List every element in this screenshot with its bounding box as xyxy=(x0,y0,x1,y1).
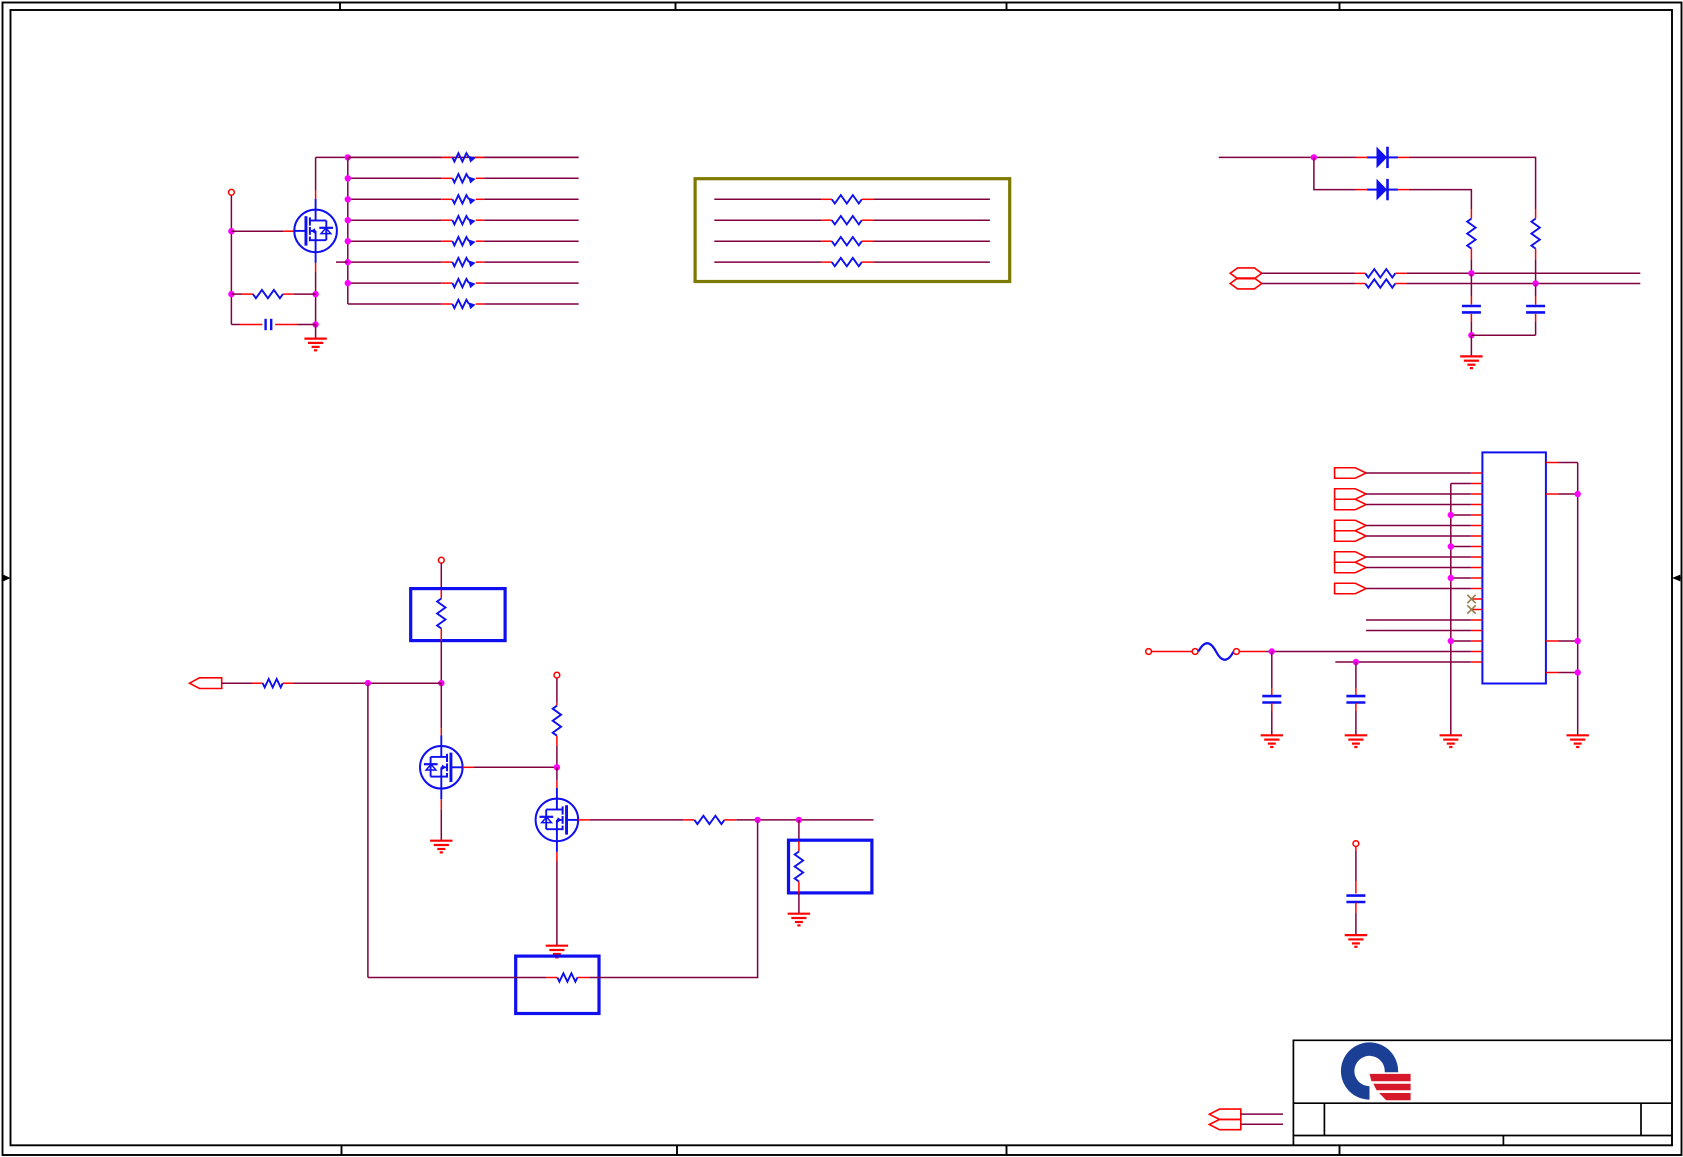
pin M1 gate xyxy=(283,230,294,232)
pin U1 left 3 xyxy=(1471,493,1483,495)
node row1 xyxy=(345,154,351,160)
node row5 xyxy=(345,238,351,244)
ground box2 xyxy=(788,914,810,926)
wire stub pin16 xyxy=(1366,630,1471,632)
IC U1 body xyxy=(1482,452,1546,683)
ground cap1 xyxy=(1261,735,1283,747)
pin D1 anode xyxy=(1356,156,1367,158)
ground bus xyxy=(1440,735,1462,747)
wire M1 drain up xyxy=(315,157,317,190)
wire node to Q1 drain xyxy=(440,683,442,728)
resistor inside box2 xyxy=(795,841,803,894)
port E arrow xyxy=(1335,531,1367,542)
resistor pullup 2 xyxy=(1531,209,1539,259)
node right rail 672.5 xyxy=(1575,669,1581,675)
node bus pin17 xyxy=(1448,638,1454,644)
wire net4 right xyxy=(873,261,990,263)
resistor row6 xyxy=(441,258,484,267)
pin circle fuse b xyxy=(1234,649,1240,655)
wire feedback bottom right xyxy=(590,820,758,978)
pin circle P1 xyxy=(229,189,235,195)
port B arrow xyxy=(1335,489,1367,500)
company logo red stripe 3 xyxy=(1379,1093,1411,1100)
port H arrow xyxy=(1335,583,1367,594)
wire net1 left xyxy=(714,198,821,200)
wire diode2 branch xyxy=(1314,157,1356,189)
wire port E xyxy=(1366,535,1471,537)
wire row8 xyxy=(348,303,442,305)
wire pair lower left xyxy=(1262,283,1355,285)
left margin center arrow xyxy=(3,575,11,582)
pin U1 left 8 xyxy=(1471,546,1483,548)
pin U1 right 2 xyxy=(1546,493,1559,495)
zone tick top 1 xyxy=(339,3,341,11)
wire row3 xyxy=(348,198,442,200)
pin U1 left 4 xyxy=(1471,504,1483,506)
port G arrow xyxy=(1335,562,1367,573)
resistor row3 xyxy=(441,195,484,204)
wire Q1 gate xyxy=(474,766,557,768)
wire gate net right xyxy=(736,819,873,821)
resistor-pack box 2 (blue) xyxy=(789,840,872,893)
wire supply2 down xyxy=(556,678,558,703)
wire top net xyxy=(1219,156,1356,158)
pin D1 cathode xyxy=(1398,156,1409,158)
ground aux cap xyxy=(1345,935,1367,947)
pin U1 left 17 xyxy=(1471,640,1483,642)
resistor pullup 1 xyxy=(1467,209,1475,259)
wire pullup to node xyxy=(556,746,558,768)
resistor net2 xyxy=(821,216,873,224)
wire net2 left xyxy=(714,219,821,221)
port arrow left xyxy=(190,678,222,689)
node lower-cap2 xyxy=(1532,280,1538,286)
port double arrow lower xyxy=(1209,1109,1241,1130)
node upper-cap1 xyxy=(1468,270,1474,276)
title block divider rev cell xyxy=(1640,1103,1642,1135)
wire bus tap pin8 xyxy=(1451,546,1471,548)
node source-cap xyxy=(312,321,318,327)
pin circle fuse in xyxy=(1146,649,1152,655)
title block outline xyxy=(1293,1040,1672,1145)
diode D2 xyxy=(1367,179,1398,201)
wire to ground xyxy=(1470,335,1472,356)
wire net4 left xyxy=(714,261,821,263)
wire row8 right xyxy=(484,303,578,305)
wire lower port 2 xyxy=(1241,1123,1283,1125)
zone tick top 2 xyxy=(675,3,677,11)
pin circle supply 2 xyxy=(554,672,560,678)
wire U1 right 1 xyxy=(1559,462,1578,464)
zone tick top 3 xyxy=(1006,3,1008,11)
pin U1 left 5 xyxy=(1471,514,1483,516)
title block line under title row xyxy=(1293,1135,1672,1137)
node row7 xyxy=(345,280,351,286)
wire Q2 source down xyxy=(556,861,558,945)
wire supply1 down xyxy=(440,563,442,590)
wire to ground xyxy=(315,325,317,339)
node cap commons xyxy=(1468,332,1474,338)
pin U1 left 18 xyxy=(1471,651,1483,653)
wire port B xyxy=(1366,493,1471,495)
mosfet M1 xyxy=(294,199,337,263)
capacitor bypass 1 xyxy=(1262,652,1281,735)
wire feedback bottom left xyxy=(368,977,546,979)
resistor inside box3 xyxy=(546,973,589,981)
pin U1 right 3 xyxy=(1546,640,1559,642)
capacitor filter 2 xyxy=(1526,284,1545,336)
wire D2 cathode xyxy=(1409,190,1472,209)
wire port H xyxy=(1366,588,1471,590)
pin U1 left 7 xyxy=(1471,535,1483,537)
wire port A xyxy=(1366,472,1471,474)
title block line under logo row xyxy=(1293,1102,1672,1104)
node bus pin5 xyxy=(1448,512,1454,518)
resistor R gate-source xyxy=(242,290,316,298)
node row6 xyxy=(345,259,351,265)
node right rail 641.0 xyxy=(1575,638,1581,644)
pin U1 left 11 xyxy=(1471,577,1483,579)
resistor row5 xyxy=(441,237,484,246)
wire D1 cathode xyxy=(1409,157,1536,209)
ground Q1 xyxy=(430,841,452,853)
pin U1 left 15 xyxy=(1471,619,1483,621)
wire row7 xyxy=(348,282,442,284)
resistor pullup gate xyxy=(553,703,561,746)
wire row4 right xyxy=(484,219,578,221)
capacitor aux xyxy=(1346,847,1365,935)
pin M1 drain xyxy=(315,190,317,199)
wire gate xyxy=(231,230,283,232)
pin U1 left 2 xyxy=(1471,483,1483,485)
pin circle fuse a xyxy=(1192,649,1198,655)
node cap2 tap xyxy=(1353,659,1359,665)
pin U1 left 1 xyxy=(1471,472,1483,474)
port D arrow xyxy=(1335,520,1367,531)
wire cap2 bottom xyxy=(1471,334,1535,336)
wire input to node xyxy=(293,682,441,684)
ground Q2 xyxy=(546,946,568,958)
wire M1 source down xyxy=(315,272,317,325)
wire pulldown down xyxy=(798,820,800,841)
node Q1gate-Q2drain xyxy=(554,764,560,770)
port F arrow xyxy=(1335,552,1367,563)
no-connect X pin14 xyxy=(1467,605,1475,613)
resistor row8 xyxy=(441,300,484,309)
resistor series input xyxy=(252,679,293,687)
wire port right xyxy=(222,682,252,684)
wire box2 to ground xyxy=(798,894,800,914)
wire lower port 1 xyxy=(1241,1113,1283,1115)
pin fuse wire in xyxy=(1152,651,1193,653)
resistor row4 xyxy=(441,216,484,225)
zone tick top 4 xyxy=(1339,3,1341,11)
wire net1 right xyxy=(873,198,990,200)
wire box1 down xyxy=(440,641,442,683)
pin U1 right 4 xyxy=(1546,672,1559,674)
resistor net1 xyxy=(821,195,873,203)
resistor Q2 gate series xyxy=(684,816,737,824)
node resistor left xyxy=(228,291,234,297)
diode D1 xyxy=(1367,147,1398,169)
wire row2 right xyxy=(484,177,578,179)
pin U1 right 1 xyxy=(1546,462,1559,464)
wire net3 left xyxy=(714,240,821,242)
ground cap2 xyxy=(1345,735,1367,747)
pin M1 source xyxy=(315,263,317,272)
pin D2 anode xyxy=(1356,189,1367,191)
wire row1 bus xyxy=(316,156,579,158)
node feedback branch xyxy=(365,680,371,686)
wire cap2 net xyxy=(1335,661,1471,663)
resistor row1 xyxy=(441,153,484,162)
zone tick bottom 3 xyxy=(1006,1145,1008,1155)
wire pair upper left xyxy=(1262,272,1355,274)
port A arrow xyxy=(1335,468,1367,479)
pin U1 left 6 xyxy=(1471,525,1483,527)
resistor-pack box (olive) xyxy=(695,179,1010,282)
wire node to Q2 drain xyxy=(556,767,558,781)
title block divider size cell xyxy=(1323,1103,1325,1135)
fuse F1 xyxy=(1198,643,1233,660)
wire U1 right 4 xyxy=(1559,672,1578,674)
pin Q1 gate xyxy=(463,766,474,768)
node row2 xyxy=(345,175,351,181)
wire bus tap pin11 xyxy=(1451,577,1471,579)
wire row5 right xyxy=(484,240,578,242)
wire gnd bus top xyxy=(1451,483,1471,485)
pin Q1 source xyxy=(440,799,442,809)
wire P1 down xyxy=(230,195,232,324)
wire row6 xyxy=(348,261,442,263)
pin U1 left 12 xyxy=(1471,588,1483,590)
ground M1 source xyxy=(304,339,326,351)
wire U1 right 3 xyxy=(1559,640,1578,642)
wire row6 stub xyxy=(336,261,348,263)
resistor series lower xyxy=(1355,279,1407,287)
wire bus tap pin5 xyxy=(1451,514,1471,516)
right margin center arrow xyxy=(1672,575,1682,582)
wire vertical bus xyxy=(347,157,349,304)
node diode branch xyxy=(1311,154,1317,160)
node gate-pulldown xyxy=(796,817,802,823)
wire resistor row left xyxy=(231,293,242,295)
wire Q2 gate xyxy=(590,819,684,821)
zone tick bottom 1 xyxy=(341,1145,343,1155)
resistor net4 xyxy=(821,258,873,266)
pin Q2 drain xyxy=(556,781,558,788)
wire port C xyxy=(1366,504,1471,506)
resistor inside box1 xyxy=(437,590,445,641)
node fuse-cap1 xyxy=(1269,648,1275,654)
resistor-pack box 3 (blue) xyxy=(516,956,599,1013)
node right rail 494.0 xyxy=(1575,491,1581,497)
pin Q2 source xyxy=(556,852,558,861)
title block divider date cell xyxy=(1502,1136,1504,1146)
capacitor C gate-source xyxy=(231,319,315,330)
resistor row7 xyxy=(441,279,484,288)
wire row7 right xyxy=(484,282,578,284)
mosfet Q1 (mirrored) xyxy=(420,735,463,799)
wire net3 right xyxy=(873,240,990,242)
wire bus tap pin17 xyxy=(1451,640,1471,642)
pin U1 left 16 xyxy=(1471,630,1483,632)
wire net2 right xyxy=(873,219,990,221)
pin U1 left 9 xyxy=(1471,556,1483,558)
pin circle aux supply xyxy=(1353,841,1359,847)
wire pair upper right xyxy=(1407,272,1641,274)
pin U1 left 13 xyxy=(1471,598,1483,600)
company logo red stripe 1 xyxy=(1370,1074,1411,1081)
wire port D xyxy=(1366,525,1471,527)
company logo blue ring xyxy=(1341,1042,1398,1099)
company logo red stripe 2 xyxy=(1373,1084,1410,1091)
wire port G xyxy=(1366,567,1471,569)
wire pair lower right xyxy=(1407,283,1641,285)
wire row4 xyxy=(348,219,442,221)
wire U1 right 2 xyxy=(1559,493,1578,495)
wire gnd bus vertical xyxy=(1450,484,1452,735)
node box1-gatewire xyxy=(438,680,444,686)
node bus pin11 xyxy=(1448,575,1454,581)
pin U1 left 10 xyxy=(1471,567,1483,569)
resistor net3 xyxy=(821,237,873,245)
capacitor filter 1 xyxy=(1462,273,1481,335)
node row4 xyxy=(345,217,351,223)
wire Q1 source down xyxy=(440,810,442,840)
pin U1 left 14 xyxy=(1471,609,1483,611)
wire row1 right xyxy=(484,156,578,158)
node bus pin8 xyxy=(1448,543,1454,549)
pin circle supply 1 xyxy=(438,557,444,563)
port C arrow xyxy=(1335,499,1367,510)
pin fuse wire out xyxy=(1239,651,1266,653)
no-connect X pin13 xyxy=(1467,595,1475,603)
zone tick bottom 2 xyxy=(676,1145,678,1155)
node row3 xyxy=(345,196,351,202)
wire row6 right xyxy=(484,261,578,263)
node gate tap xyxy=(228,228,234,234)
zone tick bottom 4 xyxy=(1339,1145,1341,1155)
capacitor bypass 2 xyxy=(1346,662,1365,735)
resistor row2 xyxy=(441,174,484,183)
pin Q2 gate xyxy=(578,819,589,821)
wire right rail xyxy=(1577,463,1579,735)
resistor-pack box 1 (blue) xyxy=(411,589,505,641)
wire row5 xyxy=(348,240,442,242)
node gate-feedback xyxy=(754,817,760,823)
wire row2 xyxy=(348,177,442,179)
pin U1 left 19 xyxy=(1471,661,1483,663)
pin D2 cathode xyxy=(1398,189,1409,191)
wire port F xyxy=(1366,556,1471,558)
wire pullup2 down xyxy=(1535,259,1537,283)
ground caps xyxy=(1460,356,1482,368)
port hexagon upper xyxy=(1230,268,1262,279)
wire fuse net xyxy=(1266,651,1471,653)
resistor series upper xyxy=(1355,269,1407,277)
wire pullup1 down xyxy=(1470,259,1472,273)
wire stub pin15 xyxy=(1366,619,1471,621)
ground right rail xyxy=(1567,735,1589,747)
wire feedback vertical xyxy=(367,683,369,977)
node source-resistor xyxy=(312,291,318,297)
mosfet Q2 (mirrored) xyxy=(536,788,579,852)
pin Q1 drain xyxy=(440,728,442,735)
wire row3 right xyxy=(484,198,578,200)
port hexagon lower xyxy=(1230,278,1262,289)
